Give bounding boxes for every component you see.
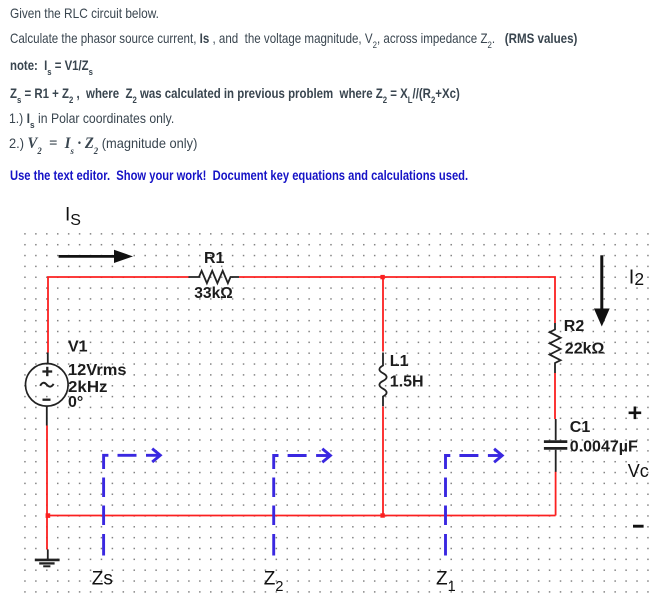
svg-text:12Vrms: 12Vrms xyxy=(68,362,127,379)
svg-text:R1: R1 xyxy=(204,250,225,267)
svg-text:0°: 0° xyxy=(68,394,83,411)
svg-text:1.5H: 1.5H xyxy=(390,373,424,390)
svg-text:V1: V1 xyxy=(68,339,88,356)
svg-text:33kΩ: 33kΩ xyxy=(194,285,233,302)
svg-text:22kΩ: 22kΩ xyxy=(565,340,605,357)
svg-text:I2: I2 xyxy=(629,267,644,289)
svg-text:L1: L1 xyxy=(390,353,409,370)
svg-text:IS: IS xyxy=(65,205,81,229)
svg-text:Zs: Zs xyxy=(92,569,113,590)
svg-text:C1: C1 xyxy=(570,419,591,436)
svg-text:0.0047µF: 0.0047µF xyxy=(570,439,638,456)
svg-text:Vc: Vc xyxy=(628,461,649,481)
svg-text:R2: R2 xyxy=(564,318,585,335)
